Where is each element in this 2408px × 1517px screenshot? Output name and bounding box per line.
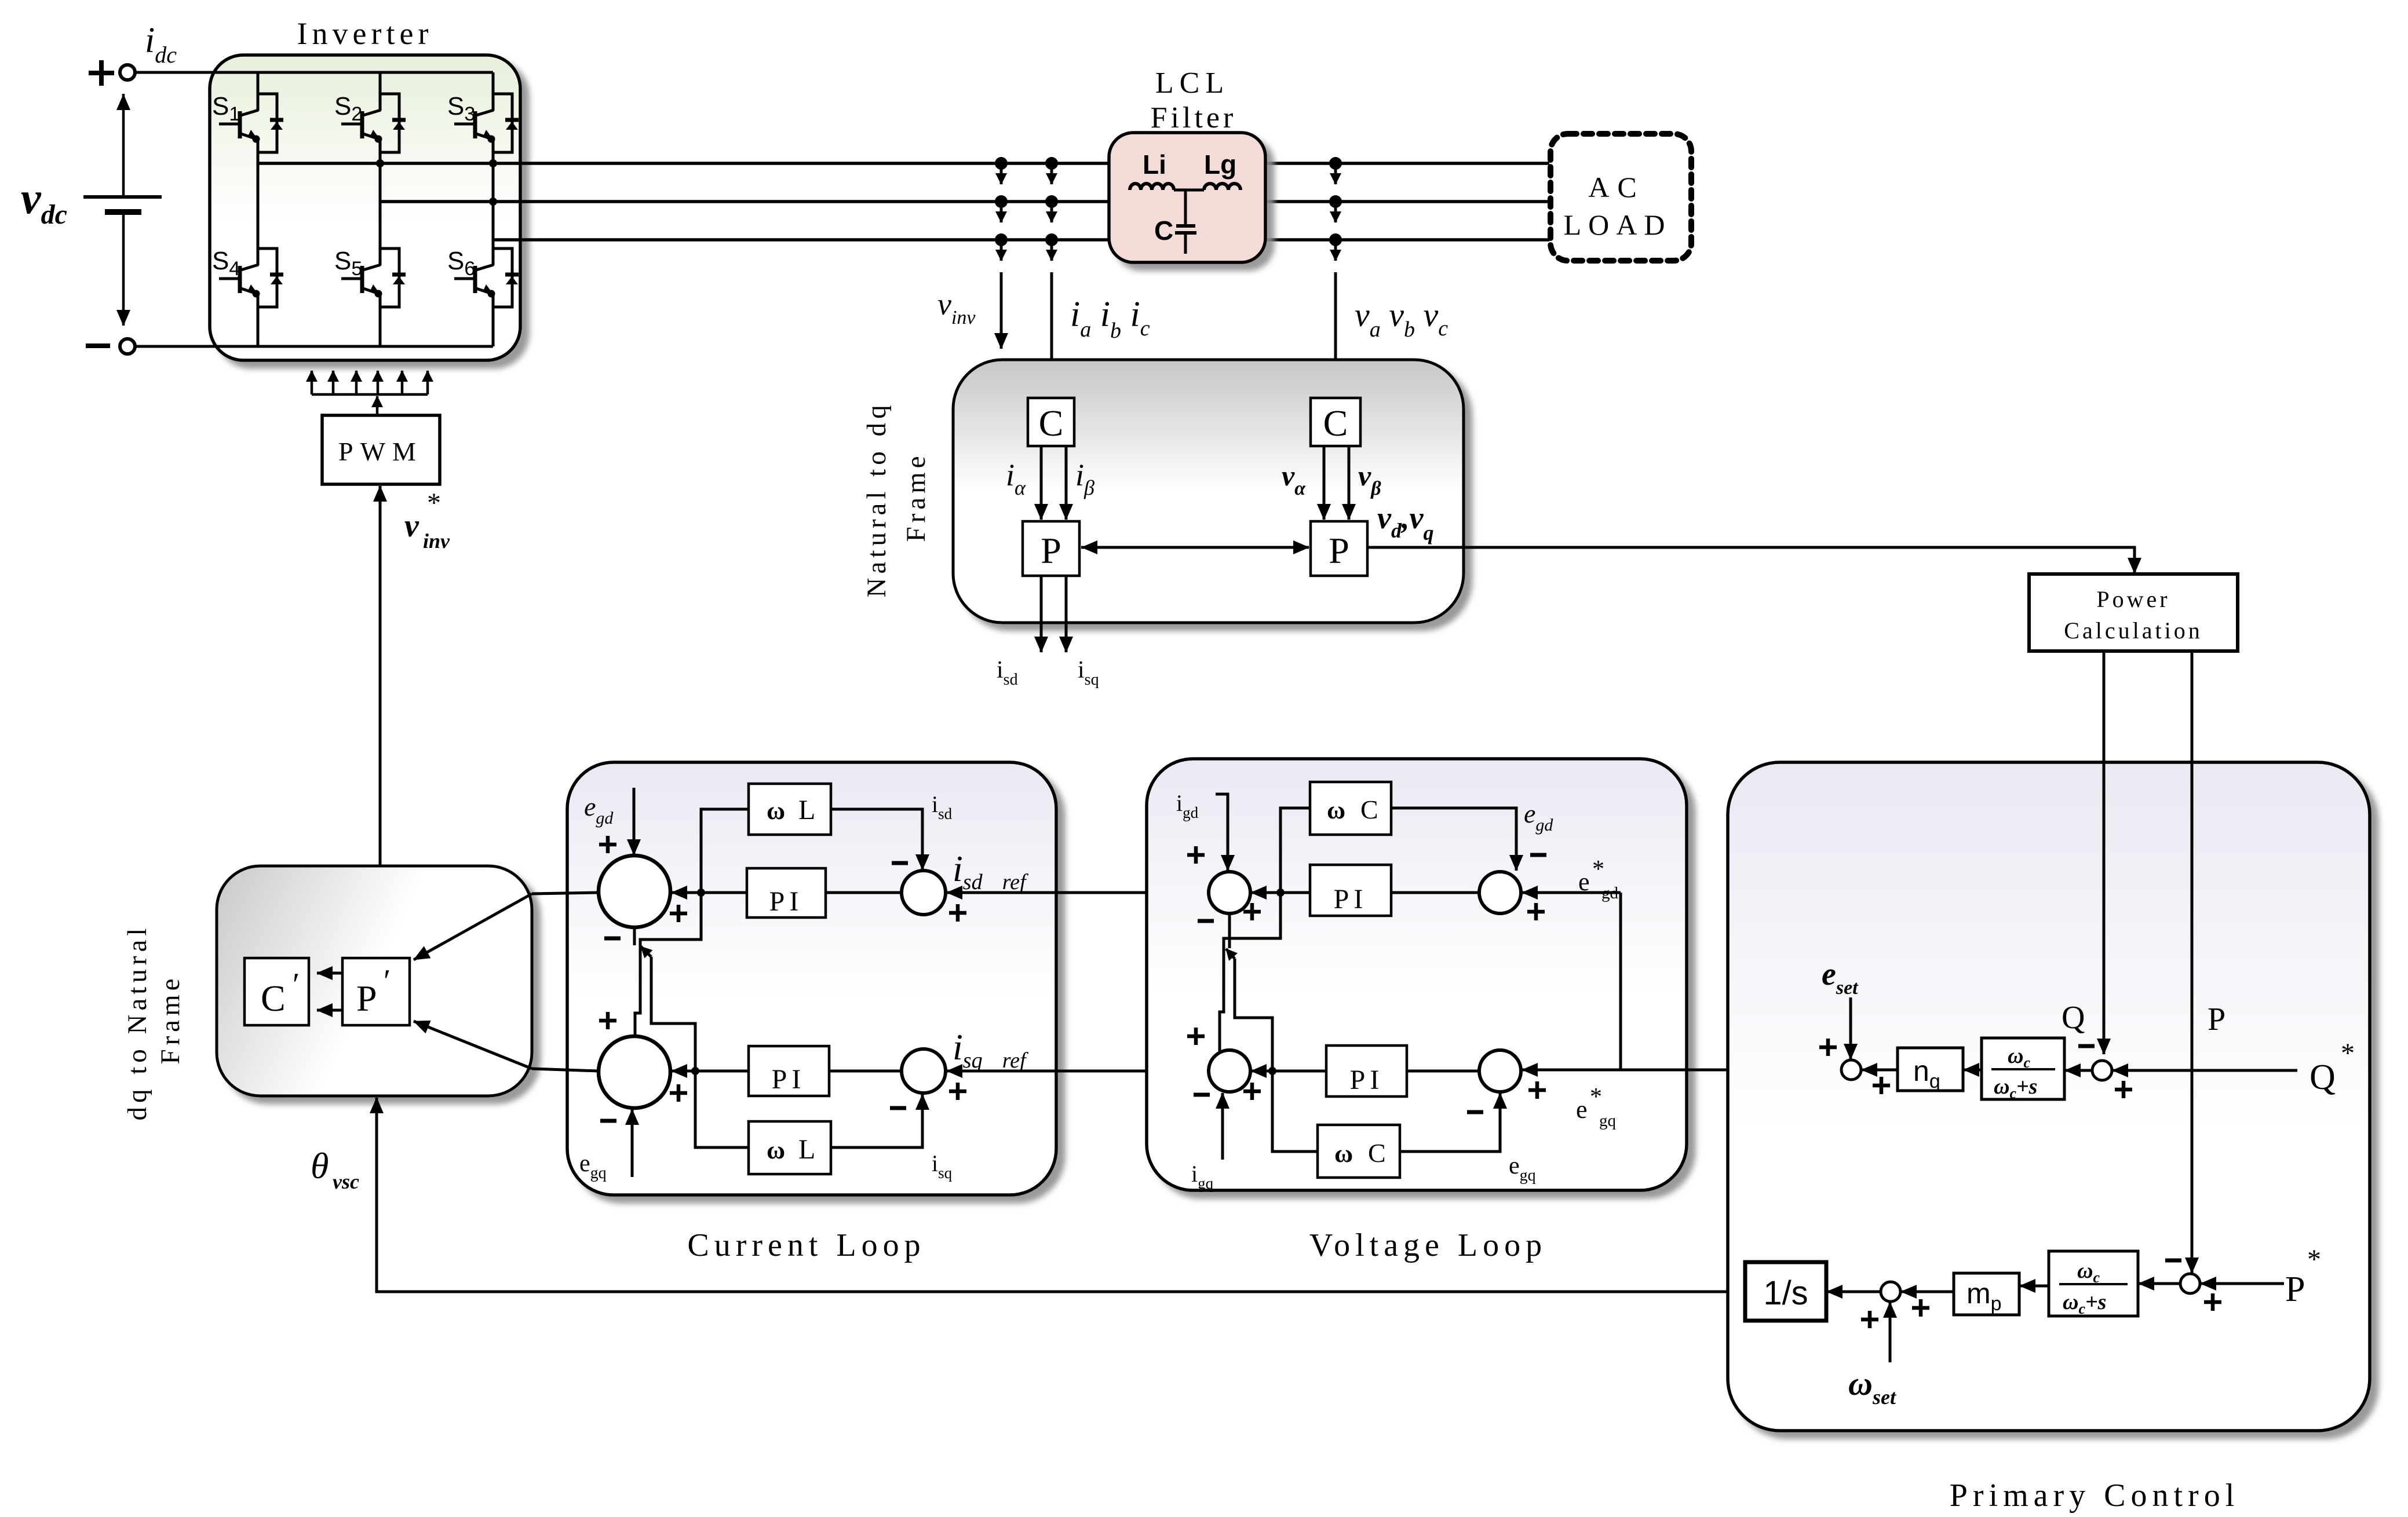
block omega_c filter Q [1982,1038,2064,1099]
plus terminal sign [89,60,114,86]
wire Pfilter to mp [2020,1285,2049,1288]
wire circle4 to PI [1391,891,1479,894]
block omega-L lower [749,1121,831,1174]
summing junction Q [2092,1061,2112,1080]
wire v*_inv to PWM [379,486,382,866]
svg-text:vinv: vinv [937,287,976,328]
wire PI to q-sum [672,1070,749,1073]
wire inverter leg 3 [492,72,495,346]
wire DC- rail [136,345,493,348]
svg-text:gd: gd [1601,884,1619,902]
wire vd-sum minus stub [1228,913,1231,948]
svg-text:Voltage Loop: Voltage Loop [1309,1227,1547,1263]
wire e_gd feedback to circle4 [1391,808,1516,871]
svg-text:gq: gq [1599,1112,1616,1130]
svg-text:Frame: Frame [901,452,931,542]
wire phase B line [380,200,1549,203]
wire isq_ref sum to PI [829,1070,902,1073]
svg-text:AC: AC [1588,171,1644,203]
svg-text:vsc: vsc [333,1170,359,1193]
svg-text:ω: ω [1327,796,1345,824]
svg-text:PI: PI [772,1064,806,1095]
svg-text:Filter: Filter [1151,101,1237,134]
svg-text:θ: θ [311,1145,329,1186]
wire e*gd branch [1619,893,1622,1070]
DC positive terminal [120,65,135,80]
svg-text:P: P [2208,1001,2225,1037]
summing junction P [2180,1274,2200,1293]
wire omega_set input [1889,1302,1892,1362]
wire Q from power calculation [2103,651,2106,1054]
voltage loop block [1147,759,1687,1190]
svg-text:*: * [427,488,441,518]
summing junction isd_ref [902,871,946,915]
block C' [245,958,309,1025]
svg-text:Current Loop: Current Loop [687,1227,925,1263]
svg-text:P: P [2285,1270,2305,1309]
svg-text:*: * [1590,1084,1602,1110]
dq-to-natural frame block [217,866,532,1096]
wire ia ib ic measurement arrow [1050,272,1053,397]
block PI lower (current) [749,1046,829,1096]
svg-text:inv: inv [423,529,450,553]
wire e_gq input [631,1109,634,1177]
wire v_beta [1348,446,1351,520]
wire va vb vc measurement arrow [1334,272,1337,397]
transistor S6 [454,265,494,294]
svg-text:ω: ω [767,796,785,825]
svg-text:*: * [2341,1038,2355,1069]
wire phase A line [258,162,1549,165]
svg-text:P: P [1329,530,1349,571]
svg-text:C: C [1039,403,1064,444]
block Power Calculation [2029,574,2238,651]
wire omegaL upper cross-coupling [635,809,749,1036]
svg-text:Li: Li [1143,149,1166,180]
wire PI to vq-sum [1251,1070,1326,1073]
svg-text:*: * [1592,856,1604,883]
battery V_dc symbol plates [83,195,162,199]
wire Li-Lg [1174,189,1204,192]
wire DC+ rail [136,71,493,74]
svg-text:Power: Power [2096,586,2170,612]
svg-text:C: C [1154,215,1173,246]
block m_p [1954,1273,2019,1315]
wire isd_ref line [947,891,1209,894]
svg-text:LOAD: LOAD [1564,209,1672,241]
wire q-sum output to P-prime [532,1069,599,1071]
wire Qfilter to nq [1964,1069,1982,1072]
wire P* input [2201,1282,2284,1285]
block P' [342,958,410,1025]
AC load dashed box [1550,134,1691,261]
wire vd command diagonal [414,894,532,960]
block n_q [1898,1048,1963,1091]
natural-to-dq frame block [953,360,1464,623]
block omega-C upper [1310,782,1391,835]
svg-text:Natural to dq: Natural to dq [862,401,892,598]
svg-text:C: C [1323,403,1348,444]
wire i_sd to isd_ref sum [831,809,922,870]
wire i_sq output [1065,576,1068,652]
block C (current Clarke) [1028,398,1074,446]
block C (voltage Clarke) [1311,398,1360,446]
svg-text:isq: isq [1078,657,1099,689]
svg-text:L: L [798,1134,815,1165]
svg-text:PI: PI [1334,884,1368,915]
svg-text:isd: isd [997,657,1018,689]
wire phase C line [493,238,1549,242]
inductor Li [1130,184,1174,190]
transistor S4 [219,265,258,294]
svg-text:ω: ω [1334,1139,1353,1168]
wire omegaC upper cross-coupling [1220,808,1310,1051]
current loop block [567,762,1056,1195]
wire omegaL lower cross-coupling [651,957,749,1147]
block P (current Park) [1023,521,1079,576]
summing junction egq error (circle6) [1479,1050,1521,1092]
svg-text:Inverter: Inverter [297,16,433,51]
wire inverter leg 1 [257,72,260,346]
svg-text:va vb vc: va vb vc [1355,296,1448,342]
primary control block [1728,762,2370,1431]
svg-text:Lg: Lg [1204,149,1236,180]
wire mp to omega-set sum [1901,1291,1954,1293]
wire e* reference line [1522,1069,1841,1072]
svg-text:C: C [261,978,286,1019]
wire inverter leg 2 [379,72,382,346]
summing junction q-axis (large) [599,1036,670,1108]
inverter enclosure [210,55,520,360]
wire P' to C' lower [317,1009,342,1012]
wire e*gd to circle4 [1522,891,1621,894]
summing junction e_set [1841,1060,1861,1080]
summing junction vq (circle5) [1209,1050,1250,1092]
svg-text:LCL: LCL [1155,67,1229,100]
wire Q* input [2113,1069,2297,1072]
svg-text:L: L [798,795,815,825]
block omega_c filter P [2049,1251,2138,1316]
block PWM [322,415,440,484]
block PI upper (current) [747,868,826,917]
wire top DC bus inside inverter [210,71,493,74]
svg-text:PI: PI [769,886,804,917]
node tap column x=1728 [995,157,1008,170]
svg-text:Q: Q [2310,1058,2336,1097]
svg-text:e: e [1578,868,1590,896]
wire omega-set sum to 1/s [1827,1291,1881,1293]
wire PWM gate arrows [312,393,428,396]
svg-text:Calculation: Calculation [2064,617,2202,644]
wire P-P double arrow [1081,546,1309,549]
block omega-C lower [1318,1125,1400,1178]
wire circle6 to PI [1407,1070,1479,1073]
svg-text:vdc: vdc [21,173,67,230]
transistor S2 [341,110,381,139]
block PI upper (voltage) [1310,865,1391,916]
svg-text:ω: ω [767,1136,785,1164]
svg-text:e: e [1576,1095,1588,1124]
junction dots inside inverter [376,159,384,167]
wire i_gd input [1216,794,1228,871]
vdc measurement double arrow [122,94,125,196]
node tap column x=2305 [1329,157,1342,170]
minus terminal sign [86,343,110,348]
svg-text:C: C [1368,1138,1386,1168]
wire i_gq input [1221,1093,1224,1160]
wire P from power calculation [2191,651,2194,1273]
wire i_beta [1065,446,1068,520]
wire vq command diagonal [414,1021,532,1069]
svg-text:idc: idc [145,21,177,68]
wire e_gq feedback to circle6 [1400,1093,1500,1152]
wire i_sd output [1040,576,1043,652]
capacitor C [1184,190,1187,225]
svg-text:ia ib ic: ia ib ic [1070,295,1150,343]
wire i_sq to isq_ref sum [831,1094,922,1147]
wire v_alpha [1323,446,1326,520]
wire d-sum minus stub [633,927,636,945]
wire i_alpha [1040,446,1043,520]
DC negative terminal [120,339,135,354]
wire Qsum to Qfilter [2065,1069,2092,1072]
svg-text:P: P [356,978,377,1019]
inductor Lg [1204,184,1241,190]
svg-text:C: C [1360,795,1378,824]
wire e_set input [1849,997,1852,1059]
svg-text:dq to Natural: dq to Natural [122,924,152,1121]
wire omegaC lower cross-coupling [1235,959,1318,1152]
svg-text:v: v [404,508,419,544]
svg-text:′: ′ [384,963,391,999]
wire PWM stem arrow [376,396,379,415]
wire theta_vsc feedback [377,1098,1745,1292]
wire isq_ref line [947,1070,1209,1073]
wire v_inv measurement arrow [1000,272,1003,349]
wire d-sum output to P-prime [532,893,599,894]
block P (voltage Park) [1311,521,1367,576]
svg-text:PWM: PWM [338,437,423,466]
svg-text:P: P [1041,530,1061,571]
block omega-L upper [749,784,831,835]
summing junction isq_ref [902,1049,946,1093]
node tap column x=1815 [1045,157,1058,170]
svg-text:′: ′ [293,967,300,1003]
svg-text:*: * [2307,1244,2321,1275]
svg-text:Frame: Frame [155,974,185,1064]
svg-text:1/s: 1/s [1763,1274,1808,1312]
summing junction d-axis (large) [599,856,670,927]
summing junction omega_set [1881,1282,1900,1302]
LCL filter block [1109,133,1265,262]
block PI lower (voltage) [1326,1046,1407,1096]
wire nq to eset-sum [1862,1069,1898,1072]
wire PI to d-sum [672,891,747,894]
summing junction egd error (circle4) [1479,872,1521,913]
svg-text:Primary Control: Primary Control [1950,1478,2240,1514]
block 1/s [1745,1262,1826,1321]
wire vd vq to power calculation [1367,547,2135,573]
wire bottom DC bus inside inverter [210,345,493,348]
svg-text:PI: PI [1350,1065,1384,1095]
transistor S1 [219,110,258,139]
wire Psum to Pfilter [2139,1282,2180,1285]
transistor S3 [454,110,494,139]
wire isd_ref sum to PI [826,891,902,894]
transistor S5 [341,265,381,294]
summing junction vd (circle3) [1209,872,1250,913]
wire e_gd input [633,788,636,855]
svg-text:Q: Q [2062,1000,2085,1036]
wire P' to C' upper [317,972,342,975]
wire PI to vd-sum [1251,891,1310,894]
